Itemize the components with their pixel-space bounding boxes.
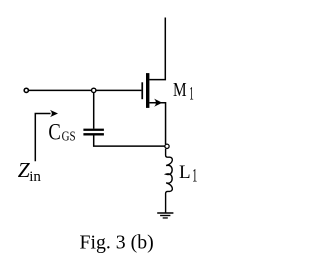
svg-text:Fig. 3 (b): Fig. 3 (b): [80, 231, 154, 253]
svg-text:1: 1: [192, 166, 197, 187]
svg-text:M: M: [173, 80, 187, 101]
svg-text:C: C: [48, 120, 60, 145]
svg-text:1: 1: [189, 83, 194, 104]
svg-text:GS: GS: [62, 129, 76, 144]
svg-text:in: in: [29, 169, 41, 185]
svg-text:L: L: [179, 162, 191, 183]
